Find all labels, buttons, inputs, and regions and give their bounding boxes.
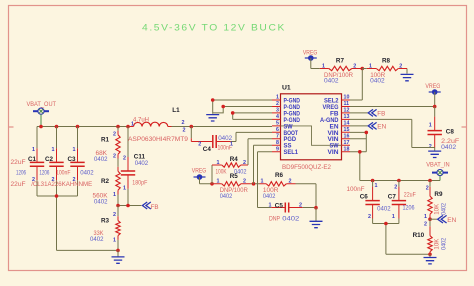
wire VREG row	[200, 183, 317, 185]
svg-text:2: 2	[113, 212, 116, 218]
junction C5-gnd	[314, 206, 318, 210]
svg-text:2: 2	[276, 101, 279, 107]
net label EN pin14	[350, 122, 387, 130]
wire P-GND pins	[213, 100, 272, 119]
svg-text:2: 2	[123, 156, 126, 162]
svg-text:1: 1	[131, 121, 134, 127]
capacitor C3	[56, 127, 94, 197]
svg-text:6: 6	[276, 127, 279, 133]
ground R8	[401, 74, 414, 80]
title text	[142, 23, 286, 34]
svg-text:R9: R9	[434, 191, 443, 198]
svg-text:DNP: DNP	[269, 215, 280, 222]
svg-text:1206: 1206	[39, 170, 49, 177]
junction VBAT_OUT-rail	[39, 125, 43, 129]
svg-text:0402: 0402	[220, 193, 233, 200]
svg-text:9: 9	[276, 146, 279, 152]
svg-text:1: 1	[375, 183, 378, 189]
wire R10 ground	[429, 254, 431, 257]
svg-text:C6: C6	[360, 194, 369, 201]
ground P-GND	[206, 115, 219, 121]
svg-text:1: 1	[322, 63, 325, 69]
svg-text:14: 14	[344, 120, 350, 126]
svg-text:R1: R1	[101, 136, 110, 143]
svg-text:R8: R8	[382, 58, 391, 65]
junction C6-bus	[371, 179, 375, 183]
svg-text:18: 18	[344, 146, 350, 152]
junction C7-bus	[397, 179, 401, 183]
svg-text:4.5V-36V TO 12V BUCK: 4.5V-36V TO 12V BUCK	[142, 23, 286, 34]
ground C5	[310, 221, 323, 227]
resistor R3	[90, 206, 120, 251]
svg-text:1: 1	[32, 147, 35, 153]
svg-text:1: 1	[52, 147, 55, 153]
wire SS	[254, 145, 273, 184]
wire A-GND	[350, 119, 435, 147]
svg-text:0402: 0402	[370, 78, 385, 85]
svg-text:2: 2	[353, 63, 356, 69]
svg-text:1: 1	[123, 185, 126, 191]
svg-text:2: 2	[182, 120, 185, 126]
svg-text:2: 2	[198, 141, 201, 147]
net label FB	[142, 202, 158, 211]
svg-text:0402: 0402	[80, 170, 94, 177]
svg-text:22uF: 22uF	[11, 181, 26, 188]
svg-text:FB: FB	[377, 111, 385, 118]
svg-text:1: 1	[276, 95, 279, 101]
svg-text:1: 1	[269, 202, 272, 208]
svg-text:VREG: VREG	[192, 168, 207, 175]
resistor R4	[212, 156, 248, 184]
junction R5R6-SS	[252, 182, 256, 186]
junction C6C7-drop	[384, 222, 388, 226]
ground right	[424, 258, 437, 264]
svg-text:2: 2	[394, 185, 397, 191]
junction VIN18	[358, 150, 362, 154]
svg-text:0402: 0402	[263, 193, 276, 200]
op-amp U1 BD9F500QUZ-E2	[272, 84, 350, 171]
resistor R9	[424, 181, 447, 221]
svg-text:16: 16	[344, 133, 350, 139]
junction R2-FB	[116, 204, 120, 208]
svg-text:0402: 0402	[282, 215, 300, 222]
wire SEL2	[350, 69, 362, 101]
junction cap-bus	[55, 194, 59, 198]
svg-text:C5: C5	[275, 202, 284, 209]
svg-text:2: 2	[183, 127, 186, 133]
junction SW-C4	[190, 125, 194, 129]
net label FB pin12	[350, 109, 385, 117]
svg-text:2: 2	[113, 132, 116, 138]
svg-text:100nF: 100nF	[347, 186, 365, 193]
junction C2-rail	[55, 125, 59, 129]
capacitor C7	[388, 181, 416, 224]
wire VREG-R7	[311, 68, 320, 70]
svg-text:1: 1	[392, 214, 395, 220]
capacitor C6	[347, 181, 392, 224]
capacitor C8	[428, 107, 460, 151]
wire VREG pin11	[350, 106, 435, 108]
junction R4R5 left	[210, 182, 214, 186]
svg-text:1206: 1206	[403, 205, 415, 212]
ground C8	[428, 151, 441, 157]
resistor R5	[214, 173, 251, 200]
svg-text:10K: 10K	[435, 239, 441, 250]
svg-text:1: 1	[424, 214, 427, 220]
capacitor C5	[269, 184, 317, 223]
svg-text:2: 2	[399, 63, 402, 69]
svg-text:0402: 0402	[90, 236, 104, 243]
resistor R2	[93, 154, 121, 206]
svg-text:C7: C7	[388, 194, 397, 201]
svg-text:180pF: 180pF	[132, 180, 147, 187]
svg-text:R7: R7	[336, 58, 345, 65]
wire PGD	[248, 139, 272, 165]
inductor L1	[128, 107, 188, 143]
svg-text:C4: C4	[203, 146, 212, 153]
junction C11-FB	[126, 204, 130, 208]
resistor R1	[94, 127, 120, 172]
junction VIN15	[365, 131, 369, 135]
wire C5 ground	[315, 208, 317, 221]
svg-text:8: 8	[276, 140, 279, 146]
junction P-GND3	[231, 111, 235, 115]
svg-text:15: 15	[344, 127, 350, 133]
svg-text:0402: 0402	[377, 205, 391, 212]
wire C8 ground	[434, 148, 436, 151]
capacitor C11	[121, 127, 149, 206]
svg-text:FB: FB	[151, 204, 159, 211]
svg-text:2: 2	[113, 154, 116, 160]
svg-text:2: 2	[424, 222, 427, 228]
wire R3 to ground	[117, 250, 119, 256]
svg-text:2: 2	[368, 214, 371, 220]
svg-text:1: 1	[113, 237, 116, 243]
resistor R8	[362, 58, 407, 85]
wire cap ground bus	[37, 196, 118, 250]
node FB wire	[118, 205, 141, 207]
svg-text:13: 13	[344, 114, 350, 120]
svg-text:0402: 0402	[441, 202, 447, 215]
svg-text:1: 1	[261, 179, 264, 185]
wire SEL1	[258, 152, 273, 208]
svg-text:0402: 0402	[324, 78, 339, 85]
svg-text:100K: 100K	[216, 169, 228, 176]
power VREG right	[425, 83, 440, 106]
junction R9-bus	[428, 179, 432, 183]
svg-text:12: 12	[344, 108, 350, 114]
svg-text:0402: 0402	[94, 198, 108, 205]
svg-text:C3: C3	[68, 156, 77, 163]
svg-text:1: 1	[217, 179, 220, 185]
junction C11-rail	[126, 125, 130, 129]
svg-text:R6: R6	[275, 172, 284, 179]
svg-text:4: 4	[276, 114, 279, 120]
junction R9R10-EN	[428, 217, 432, 221]
svg-text:1: 1	[369, 63, 372, 69]
svg-text:2: 2	[289, 179, 292, 185]
junction R7R8	[361, 67, 365, 71]
ground left	[112, 257, 125, 263]
svg-text:1206: 1206	[16, 170, 26, 177]
junction P-GND1	[211, 98, 215, 102]
node VIN bus	[360, 180, 440, 182]
junction R3-groundwire	[116, 249, 120, 253]
svg-text:ASP0630HI4R7MT9: ASP0630HI4R7MT9	[128, 136, 188, 143]
svg-text:1: 1	[73, 147, 76, 153]
svg-text:1: 1	[230, 141, 233, 147]
svg-text:100nF: 100nF	[56, 170, 71, 177]
svg-text:R2: R2	[101, 178, 110, 185]
svg-text:VIN: VIN	[328, 149, 340, 156]
svg-text:22uF: 22uF	[404, 192, 416, 199]
svg-text:VREG: VREG	[425, 83, 440, 90]
svg-text:/CL31A226KAHNNME: /CL31A226KAHNNME	[31, 181, 92, 188]
wire C6C7 bottom	[373, 224, 430, 255]
svg-text:11: 11	[344, 101, 350, 107]
svg-text:1: 1	[113, 192, 116, 198]
svg-text:17: 17	[344, 140, 350, 146]
junction VREG-C8	[433, 105, 437, 109]
svg-text:22uF: 22uF	[11, 159, 26, 166]
svg-text:5: 5	[276, 120, 279, 126]
svg-text:R5: R5	[230, 173, 239, 180]
value 22uF /CL31A226KAHNNME	[11, 181, 93, 188]
svg-text:VBAT_OUT: VBAT_OUT	[27, 101, 57, 108]
resistor R10	[413, 219, 448, 254]
node VOUT rail	[37, 126, 272, 128]
svg-text:10K: 10K	[435, 204, 441, 215]
svg-text:EN: EN	[447, 217, 456, 224]
svg-text:7: 7	[276, 133, 279, 139]
svg-text:10: 10	[344, 95, 350, 101]
svg-text:2: 2	[243, 160, 246, 166]
svg-text:2: 2	[243, 179, 246, 185]
port VBAT_OUT	[27, 101, 57, 127]
svg-text:4.7uH: 4.7uH	[133, 117, 149, 124]
svg-text:C2: C2	[45, 156, 54, 163]
svg-text:C8: C8	[446, 128, 455, 135]
junction R1-rail	[116, 125, 120, 129]
svg-text:0402: 0402	[441, 144, 456, 151]
svg-text:2: 2	[426, 185, 429, 191]
junction C3-rail	[76, 125, 80, 129]
svg-text:0402: 0402	[441, 237, 447, 250]
junction R10-gnd	[428, 253, 432, 257]
svg-text:3: 3	[276, 108, 279, 114]
svg-text:R10: R10	[413, 232, 425, 239]
junction P-GND2	[221, 105, 225, 109]
resistor R7	[320, 58, 363, 85]
svg-text:U1: U1	[282, 84, 291, 91]
svg-text:2: 2	[299, 202, 302, 208]
resistor R6	[260, 172, 296, 200]
svg-text:R4: R4	[230, 156, 239, 163]
svg-text:L1: L1	[172, 107, 180, 114]
wire VIN pins	[350, 132, 366, 180]
svg-text:0402: 0402	[135, 160, 149, 167]
port VBAT_IN	[426, 161, 450, 180]
svg-text:1: 1	[429, 122, 432, 128]
power VREG mid	[192, 168, 207, 184]
svg-text:1: 1	[217, 160, 220, 166]
svg-text:C1: C1	[28, 156, 37, 163]
capacitor C4	[191, 127, 272, 153]
svg-text:VBAT_IN: VBAT_IN	[426, 161, 450, 168]
capacitor C1	[11, 127, 45, 197]
net label EN right	[430, 215, 457, 224]
svg-text:SEL1: SEL1	[284, 149, 299, 156]
svg-text:BD9F500QUZ-E2: BD9F500QUZ-E2	[282, 164, 331, 171]
capacitor C2	[39, 127, 63, 197]
svg-text:0402: 0402	[94, 156, 108, 163]
svg-text:R3: R3	[101, 217, 110, 224]
svg-text:EN: EN	[377, 124, 386, 131]
power VREG top	[303, 50, 318, 69]
